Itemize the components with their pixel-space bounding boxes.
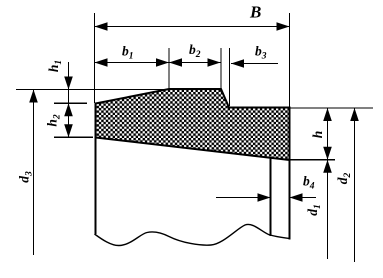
- dimension b2 right arrow: [208, 58, 221, 67]
- h1 bottom / h2 top arrow (up at y=103.3): [64, 103, 73, 116]
- svg-text:h: h: [310, 131, 325, 139]
- extension line step bottom corner (x=229.5): [229, 48, 231, 106]
- short extension line at y=137.3: [54, 136, 93, 138]
- d1 top arrow (up at y=159.8): [323, 160, 332, 173]
- ring left vertical: [270, 158, 272, 236]
- h2 bottom arrow (down at y=137.3): [64, 124, 73, 137]
- ring right vertical / right edge: [289, 108, 291, 240]
- extension line left of B (x=94.5): [94, 13, 96, 103]
- dimension B right arrow: [277, 22, 290, 31]
- dimension b3 arrow: [231, 59, 244, 68]
- short extension line at y=103.3: [54, 102, 87, 104]
- extension line b2/b3 top corner (x=221): [220, 48, 222, 88]
- h bottom arrow (down at y=159.8): [323, 147, 332, 160]
- reference line at crown peak level (y=89.5): [16, 89, 221, 91]
- dimension d2 vertical line (x=354.5): [354, 108, 356, 262]
- dimension b4 left segment with right-pointing arrow: [216, 197, 271, 199]
- dimension b4 right segment with left-pointing arrow: [290, 197, 317, 199]
- dimension b2 line: [169, 62, 221, 64]
- dimension h vertical line (x=327.5): [327, 108, 329, 160]
- extension line right at y=159.8: [288, 159, 335, 161]
- dimension b2 left arrow: [169, 58, 182, 67]
- dimension B line: [95, 26, 290, 28]
- extension line b1/b2 (x=169): [168, 48, 170, 88]
- d3 top arrow (up at y=89.5): [29, 90, 38, 103]
- h top arrow (up at y=108): [323, 108, 332, 121]
- dimension d1 vertical line (x=327.5): [327, 160, 329, 259]
- left edge of web below rim: [95, 138, 97, 235]
- d2 top arrow (up at y=108): [350, 108, 359, 121]
- extension line right of B (x=289.5): [289, 13, 291, 107]
- dimension d3 vertical line (x=33.5): [33, 90, 35, 255]
- svg-text:B: B: [249, 3, 261, 22]
- wavy break line: [95, 224, 290, 245]
- h1 top arrow (down at y=89.5): [64, 77, 73, 90]
- dimension h1/h2 vertical line (x=68.5): [68, 62, 70, 137]
- dimension b1 left arrow: [95, 58, 108, 67]
- rim cross-section (hatched polygon): [96, 89, 290, 160]
- dimension b1 right arrow: [156, 58, 169, 67]
- dimension b3 line with single left arrow: [231, 63, 278, 65]
- extension line right at y=108: [290, 107, 373, 109]
- dimension B left arrow: [95, 22, 108, 31]
- dimension b1 line: [95, 62, 170, 64]
